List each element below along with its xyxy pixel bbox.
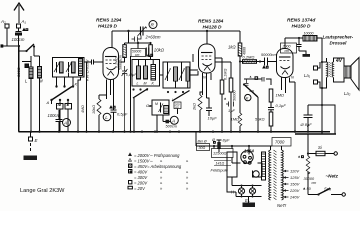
- legend text lines: [134, 153, 189, 191]
- svg-text:M: M: [155, 102, 158, 106]
- svg-text:12500Ω: 12500Ω: [213, 152, 227, 156]
- marker 8uF: [214, 142, 216, 144]
- resistor tube2 cathode zigzag: [198, 92, 203, 132]
- resistor 50kohm vertical: [269, 110, 273, 132]
- switch antenna: [19, 44, 35, 56]
- variable capacitor sub: [159, 103, 164, 113]
- svg-text:125V: 125V: [290, 175, 300, 180]
- capacitor 100cm test: [56, 110, 63, 132]
- marker bf: [148, 54, 153, 56]
- wave switch arm: [52, 87, 73, 101]
- svg-text:= 2000V∼ Prüfspannung: = 2000V∼ Prüfspannung: [134, 153, 180, 158]
- node antenna junction: [18, 45, 20, 47]
- resistor 0,2Mohm horizontal: [243, 60, 257, 64]
- wire A2 down: [7, 28, 19, 46]
- svg-text:~Netz: ~Netz: [326, 174, 339, 179]
- svg-text:H4129 D: H4129 D: [98, 24, 117, 30]
- capacitor A 500cm: [163, 120, 170, 124]
- ground symbol E: [24, 156, 38, 161]
- svg-text:50000: 50000: [233, 90, 237, 101]
- variable capacitor bf1: [165, 68, 171, 82]
- capacitor trimmer small: [122, 66, 128, 132]
- wire bus corner down at 240: [239, 31, 241, 43]
- node anode2: [206, 30, 208, 32]
- coil bf2: [186, 67, 190, 81]
- coil tuned 2: [72, 62, 76, 73]
- meter point L circle: [103, 113, 111, 121]
- wire 30ohm left up: [195, 132, 197, 146]
- capacitor 2000cm boxed: [281, 43, 297, 53]
- svg-text:cm: cm: [285, 49, 290, 53]
- svg-text:= 20V: = 20V: [134, 186, 146, 191]
- box rectifier left: [227, 152, 237, 177]
- wave switch contacts row1: [55, 85, 74, 87]
- svg-text:= 400V: = 400V: [134, 170, 148, 175]
- resistor cathode tube1 10k: [97, 95, 101, 132]
- marker triangle 50: [303, 187, 305, 189]
- node x322 dots: [321, 61, 323, 89]
- svg-text:150V: 150V: [290, 182, 300, 187]
- fuse Si: [307, 151, 338, 155]
- wire left vertical to bus: [18, 46, 20, 132]
- wires bandfilter out: [149, 71, 199, 132]
- switch K arm: [244, 85, 258, 98]
- variable capacitor bf2: [179, 68, 185, 82]
- svg-text:K: K: [246, 96, 249, 101]
- variable capacitor tuning 1: [54, 62, 60, 73]
- osc switch contacts: [132, 88, 148, 90]
- svg-text:100cm: 100cm: [48, 113, 61, 118]
- wire rectifier leads: [232, 146, 262, 177]
- wire coil M to bus: [39, 78, 41, 132]
- svg-text:L: L: [172, 98, 174, 102]
- capacitor 0,5uF cathode: [111, 104, 117, 132]
- capacitor 1uF t2: [226, 102, 234, 107]
- capacitor 50000cm coupling: [265, 58, 268, 66]
- svg-text:R: R: [151, 23, 155, 29]
- svg-text:2×60cm: 2×60cm: [145, 35, 162, 40]
- marker pair tube1: [110, 106, 115, 108]
- legend symbols column: [128, 152, 133, 173]
- wire t2 aux: [215, 58, 231, 62]
- wire K contact down: [257, 97, 259, 132]
- svg-text:= 200V: = 200V: [134, 181, 148, 186]
- sub box padding caps: [152, 100, 169, 115]
- node rect top: [248, 145, 250, 147]
- capacitor 10uF tube2: [206, 88, 212, 116]
- svg-text:La₂: La₂: [344, 91, 351, 96]
- heater winding: [262, 152, 266, 180]
- heater line top: [232, 185, 262, 187]
- svg-text:= 1500V∼: = 1500V∼: [134, 159, 153, 164]
- svg-text:H4128 D: H4128 D: [203, 25, 222, 31]
- ground bus: [19, 131, 331, 133]
- svg-text:Bei Ø: Bei Ø: [198, 140, 207, 144]
- svg-text:1µF: 1µF: [228, 108, 236, 113]
- svg-text:L: L: [105, 115, 108, 120]
- coil KW-Drossel: [79, 59, 83, 76]
- capacitor 8uF right: [304, 105, 313, 132]
- trimmer capacitor 2x60cm: [132, 27, 148, 42]
- svg-text:Sch: Sch: [324, 187, 332, 192]
- terminal E: [29, 132, 39, 151]
- svg-text:100cm: 100cm: [12, 37, 25, 42]
- bf switch contacts: [167, 91, 184, 93]
- wire tube3 anode up: [284, 38, 286, 49]
- svg-text:50kΩ: 50kΩ: [255, 117, 265, 122]
- svg-text:110V: 110V: [290, 169, 299, 174]
- bf switch arm: [172, 91, 190, 102]
- capacitor beside box: [146, 48, 148, 57]
- svg-text:cm: cm: [312, 181, 317, 185]
- svg-text:50000cm: 50000cm: [261, 53, 277, 57]
- wire bus feed branch: [128, 31, 130, 43]
- capacitor grid tube1: [92, 60, 94, 65]
- oscillator coil box: [132, 60, 160, 87]
- ground symbol anode bypass: [299, 51, 310, 57]
- wire coil L to bus: [30, 79, 32, 132]
- svg-text:A: A: [171, 119, 175, 124]
- wire tube3 aux row: [244, 79, 271, 85]
- meter lamp circle: [253, 171, 259, 177]
- capacitor L outer: [174, 102, 181, 114]
- svg-text:1MΩ: 1MΩ: [276, 93, 285, 98]
- svg-text:RENS 1294: RENS 1294: [96, 18, 122, 24]
- capacitor aux a: [245, 79, 249, 85]
- output transformer: [327, 58, 338, 82]
- svg-text:30Ω: 30Ω: [199, 146, 206, 150]
- coil tuned 1: [60, 62, 64, 73]
- coil L antenna: [29, 67, 33, 79]
- svg-text:M: M: [144, 82, 147, 86]
- svg-text:K: K: [75, 82, 78, 87]
- node sub dots: [156, 131, 158, 133]
- capacitor padder L: [65, 100, 72, 132]
- tube V2 RENS1284 envelope: [199, 44, 216, 73]
- resistor screen dropper: [120, 43, 127, 62]
- node screen feed dots: [137, 42, 139, 44]
- legend open square symbols: [128, 164, 132, 189]
- osc switch arm: [133, 89, 148, 99]
- svg-text:7000: 7000: [275, 140, 285, 145]
- wire coil top feed: [22, 56, 40, 67]
- svg-text:4V: 4V: [335, 58, 343, 64]
- capacitor 8uF first: [217, 140, 222, 152]
- wire grid tube2: [190, 54, 198, 75]
- capacitor antenna 100cm: [16, 28, 22, 46]
- svg-text:NeTr: NeTr: [277, 203, 287, 208]
- B+ dc line: [196, 145, 272, 147]
- svg-text:EL: EL: [245, 198, 251, 203]
- wire antenna down to ground bus: [18, 46, 20, 132]
- ground symbol transformer: [243, 197, 256, 208]
- wire tube1 anode to top bus: [111, 31, 113, 48]
- marker sq psu: [302, 156, 304, 158]
- power transformer secondary winding: [282, 150, 284, 200]
- coil M antenna: [38, 67, 42, 79]
- svg-text:Lautsprecher-: Lautsprecher-: [323, 35, 354, 40]
- bandfilter box: [163, 62, 190, 88]
- resistor grid leak 1Mohm tube3: [238, 60, 242, 132]
- wire tube2 anode to bus: [206, 31, 208, 44]
- svg-text:220V: 220V: [289, 188, 300, 193]
- labels tap voltages: [289, 169, 300, 200]
- svg-text:A: A: [63, 121, 67, 127]
- node feldspule a: [213, 145, 215, 147]
- wire cathode join: [99, 94, 107, 96]
- wire osc to bf: [160, 74, 164, 76]
- capacitor sub 500cm: [164, 106, 169, 114]
- svg-text:0,5µF: 0,5µF: [117, 112, 128, 117]
- terminal La1 a: [314, 66, 318, 70]
- capacitor padder M: [57, 100, 64, 132]
- marker pair psu: [298, 156, 300, 158]
- svg-text:10000: 10000: [304, 32, 314, 36]
- coil osc L: [137, 60, 141, 80]
- svg-text:0,1MΩ: 0,1MΩ: [224, 69, 228, 80]
- svg-text:cm: cm: [135, 53, 140, 57]
- svg-text:2kΩ: 2kΩ: [193, 103, 197, 111]
- svg-text:A: A: [46, 100, 50, 105]
- resistor 30ohm boxed: [197, 140, 210, 151]
- terminal A1: [17, 24, 21, 28]
- terminal aux square: [255, 77, 258, 80]
- resistor 1k vertical: [238, 43, 242, 62]
- svg-text:N: N: [291, 76, 294, 80]
- svg-text:8µF: 8µF: [223, 138, 231, 143]
- variable capacitor tuning 2: [66, 62, 72, 73]
- svg-text:0,1µF: 0,1µF: [276, 103, 287, 108]
- coil osc M: [144, 60, 148, 80]
- svg-text:A₁: A₁: [21, 19, 27, 24]
- capacitor 0,1uF: [268, 108, 274, 110]
- coil bf1: [174, 67, 178, 81]
- wire tube1 pins: [107, 80, 114, 105]
- svg-text:L: L: [137, 82, 139, 86]
- svg-text:240V: 240V: [289, 195, 300, 200]
- wire osc arm down: [133, 98, 135, 132]
- wire box to heater: [231, 177, 233, 186]
- svg-text:50000cm: 50000cm: [118, 55, 122, 70]
- meter point R circle: [149, 21, 157, 29]
- svg-text:Lange Gral 2K3W: Lange Gral 2K3W: [20, 188, 65, 194]
- tube V1 RENS1294 envelope: [103, 48, 119, 80]
- svg-text:1MΩ: 1MΩ: [231, 117, 240, 122]
- terminal left edge: [3, 45, 8, 47]
- wires bf internals: [168, 62, 188, 88]
- resistor 20k vertical: [149, 43, 153, 60]
- wire kw drossel down: [78, 77, 81, 132]
- svg-text:141Ω: 141Ω: [216, 162, 225, 166]
- wire feldspule sides: [214, 146, 232, 149]
- transformer taps: [283, 170, 289, 198]
- terminal A2: [5, 24, 9, 28]
- svg-text:Ø 8µF: Ø 8µF: [300, 122, 313, 127]
- speaker: [337, 58, 359, 91]
- svg-text:La₁: La₁: [304, 73, 311, 78]
- output B+ line: [285, 37, 322, 39]
- wire coupling line: [240, 61, 277, 63]
- wire screen feed: [125, 42, 151, 44]
- svg-text:4MΩ: 4MΩ: [81, 105, 85, 113]
- antenna: [14, 3, 24, 23]
- svg-text:20kΩ: 20kΩ: [153, 48, 165, 53]
- meter point K circle: [245, 94, 251, 100]
- wire drossel corner down: [321, 38, 323, 134]
- resistor screen t2 vertical: [229, 62, 233, 132]
- meter point A circle: [63, 119, 71, 127]
- svg-text:A₂: A₂: [0, 19, 6, 24]
- wire A contact down: [51, 100, 53, 104]
- meter point A2 circle: [170, 116, 178, 124]
- thick bus right: [295, 133, 336, 135]
- transformer core: [274, 150, 277, 200]
- svg-text:H4150 D: H4150 D: [292, 24, 311, 30]
- resistor 1Mohm vertical: [269, 89, 273, 107]
- marker triangle t2: [224, 98, 226, 100]
- svg-text:Drossel: Drossel: [330, 41, 348, 46]
- top bus B+: [112, 30, 240, 32]
- node feldspule b: [231, 145, 233, 147]
- svg-text:1kΩ: 1kΩ: [228, 45, 236, 50]
- svg-text:10µF: 10µF: [208, 116, 218, 121]
- transformer label 7000 boxed: [272, 138, 291, 147]
- terminal La1 b: [314, 80, 318, 84]
- wire switch feeds: [57, 73, 74, 106]
- wire band box to tube grid: [84, 61, 103, 63]
- resistor Feldspule boxed: [212, 149, 234, 166]
- svg-text:= 300V: = 300V: [134, 175, 148, 180]
- wire trimmer down: [137, 42, 139, 49]
- marker triangle square: [23, 29, 28, 31]
- capacitor small left: [25, 64, 29, 68]
- wire bus down right: [307, 134, 309, 195]
- rectifier 1064 socket: [241, 151, 253, 164]
- lamp H: [238, 185, 244, 198]
- marker aux: [250, 76, 252, 78]
- capacitor anode bypass: [297, 37, 302, 51]
- switch Sch: [308, 189, 345, 197]
- wire tube2 pins: [203, 73, 212, 95]
- svg-text:RENS 1374d: RENS 1374d: [287, 18, 316, 24]
- svg-text:RENS 1284: RENS 1284: [198, 19, 224, 25]
- wire right corner: [322, 105, 335, 134]
- heater line bottom: [227, 177, 262, 197]
- marker coupling: [263, 66, 268, 68]
- lamp EL: [249, 185, 255, 198]
- capacitor 50000cm boxed: [131, 49, 146, 58]
- wire secondary top: [281, 146, 283, 150]
- resistor 30000cm vertical: [306, 156, 310, 174]
- wire 8uF top feed: [308, 104, 322, 106]
- svg-text:500cm: 500cm: [166, 125, 177, 129]
- svg-text:= 450V= Arbeitsspannung: = 450V= Arbeitsspannung: [134, 164, 182, 169]
- wire tube3 pins: [282, 78, 296, 132]
- svg-text:10kΩ: 10kΩ: [92, 105, 96, 114]
- svg-text:0,2MΩ: 0,2MΩ: [243, 55, 255, 60]
- power transformer primary winding: [269, 146, 282, 200]
- band switch box: [53, 58, 85, 78]
- wire osc box left down: [130, 56, 132, 132]
- wire transformer bottom to line: [322, 82, 327, 88]
- svg-text:N: N: [203, 76, 206, 80]
- capacitor aux b: [262, 77, 264, 82]
- coil Lautsprecher-Drossel: [303, 36, 317, 42]
- wire band box output down: [84, 62, 87, 132]
- svg-text:Feldspule: Feldspule: [211, 168, 229, 173]
- node bus dots: [30, 131, 323, 133]
- wire La1 terminals: [318, 62, 327, 88]
- wave switch contacts row2: [50, 99, 69, 101]
- tube V3 RENS1374d envelope: [277, 49, 294, 78]
- resistor grid leak tube2 vertical: [220, 58, 224, 132]
- coil osc K: [151, 60, 156, 81]
- node coupling: [259, 60, 261, 62]
